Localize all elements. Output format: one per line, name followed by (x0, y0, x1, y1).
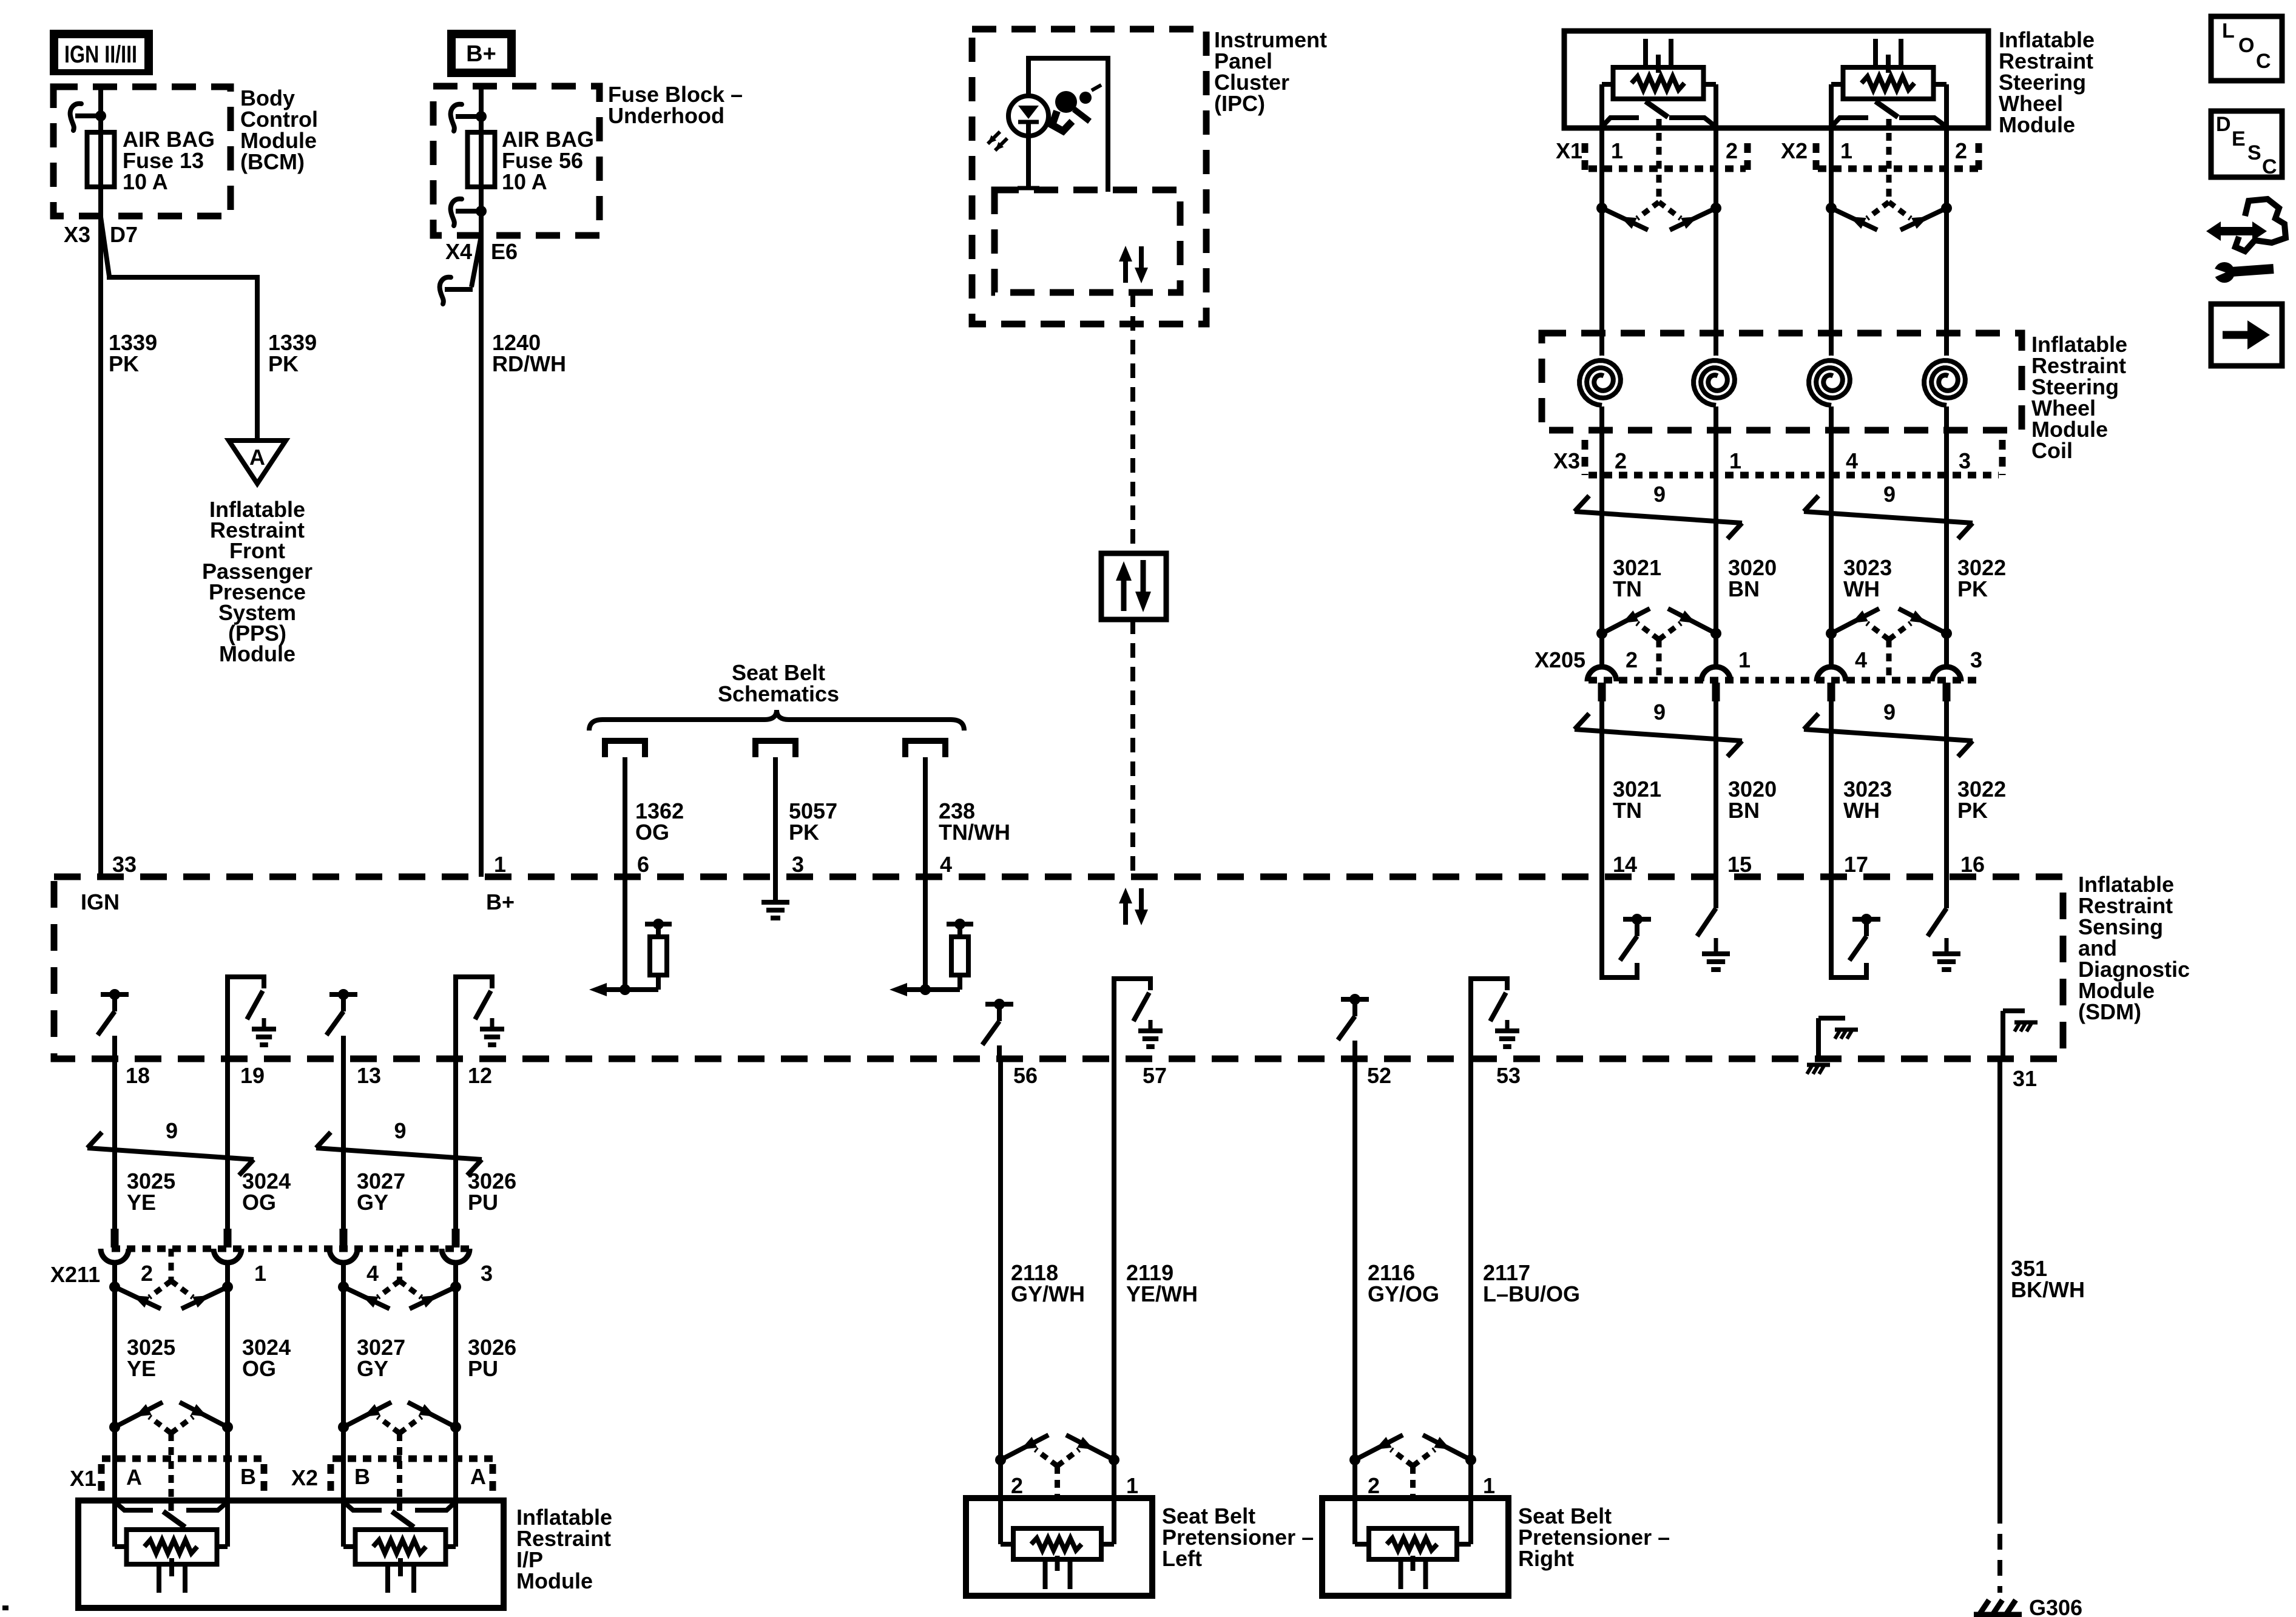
svg-text:Underhood: Underhood (608, 103, 724, 128)
svg-text:X205: X205 (1535, 647, 1585, 672)
svg-text:PK: PK (109, 351, 139, 376)
svg-text:Module: Module (219, 641, 295, 666)
svg-text:52: 52 (1367, 1063, 1391, 1088)
svg-text:PK: PK (268, 351, 299, 376)
svg-text:Module: Module (1999, 112, 2075, 137)
svg-text:53: 53 (1496, 1063, 1521, 1088)
svg-text:4: 4 (1855, 647, 1867, 672)
svg-text:10 A: 10 A (123, 169, 168, 194)
svg-text:15: 15 (1727, 852, 1752, 877)
svg-text:(IPC): (IPC) (1214, 91, 1265, 116)
svg-text:C: C (2262, 155, 2277, 178)
svg-text:Coil: Coil (2031, 438, 2073, 463)
svg-text:WH: WH (1843, 576, 1880, 601)
svg-text:16: 16 (1960, 852, 1985, 877)
svg-text:BK/WH: BK/WH (2011, 1277, 2085, 1302)
svg-text:33: 33 (112, 852, 137, 877)
svg-text:3: 3 (481, 1261, 493, 1286)
svg-text:(SDM): (SDM) (2078, 999, 2141, 1024)
svg-text:PK: PK (1957, 576, 1988, 601)
svg-text:57: 57 (1143, 1063, 1167, 1088)
svg-text:OG: OG (635, 820, 669, 845)
svg-text:4: 4 (366, 1261, 379, 1286)
svg-text:9: 9 (394, 1118, 406, 1143)
svg-text:2: 2 (1726, 138, 1738, 163)
svg-text:Schematics: Schematics (718, 681, 839, 706)
svg-text:B: B (240, 1464, 256, 1489)
svg-text:17: 17 (1844, 852, 1868, 877)
svg-text:S: S (2247, 141, 2261, 164)
svg-text:4: 4 (1846, 448, 1858, 473)
svg-text:Right: Right (1518, 1546, 1574, 1571)
svg-text:PK: PK (1957, 798, 1988, 823)
svg-text:4: 4 (940, 852, 952, 877)
svg-text:X4: X4 (445, 239, 472, 264)
svg-text:6: 6 (637, 852, 649, 877)
svg-text:X2: X2 (1781, 138, 1808, 163)
svg-text:PU: PU (468, 1356, 498, 1381)
svg-text:2: 2 (1626, 647, 1638, 672)
svg-text:E: E (2232, 127, 2246, 150)
svg-text:YE/WH: YE/WH (1126, 1281, 1198, 1306)
svg-text:1: 1 (494, 852, 506, 877)
svg-text:L: L (2222, 19, 2235, 42)
svg-text:12: 12 (468, 1063, 492, 1088)
svg-text:14: 14 (1613, 852, 1637, 877)
svg-text:2: 2 (1615, 448, 1627, 473)
svg-text:GY/OG: GY/OG (1368, 1281, 1439, 1306)
svg-text:3: 3 (1970, 647, 1982, 672)
svg-text:O: O (2238, 34, 2254, 57)
svg-text:1: 1 (1729, 448, 1741, 473)
svg-text:IGN: IGN (81, 890, 120, 914)
svg-text:OG: OG (242, 1356, 276, 1381)
svg-text:2: 2 (1368, 1473, 1380, 1498)
svg-text:B: B (354, 1464, 370, 1489)
svg-text:WH: WH (1843, 798, 1880, 823)
svg-text:GY: GY (357, 1190, 388, 1215)
svg-text:3: 3 (792, 852, 804, 877)
svg-text:D7: D7 (110, 222, 138, 247)
svg-text:B+: B+ (466, 41, 496, 67)
svg-text:56: 56 (1013, 1063, 1038, 1088)
svg-text:2: 2 (141, 1261, 153, 1286)
svg-text:TN: TN (1613, 798, 1642, 823)
svg-text:GY: GY (357, 1356, 388, 1381)
svg-text:1: 1 (254, 1261, 266, 1286)
svg-text:PU: PU (468, 1190, 498, 1215)
svg-text:19: 19 (240, 1063, 265, 1088)
svg-text:YE: YE (127, 1356, 156, 1381)
svg-text:GY/WH: GY/WH (1011, 1281, 1085, 1306)
svg-text:BN: BN (1728, 576, 1760, 601)
svg-text:E6: E6 (491, 239, 518, 264)
svg-text:OG: OG (242, 1190, 276, 1215)
svg-text:A: A (470, 1464, 486, 1489)
svg-text:1: 1 (1483, 1473, 1495, 1498)
svg-text:X211: X211 (50, 1262, 100, 1287)
svg-text:TN/WH: TN/WH (939, 820, 1010, 845)
svg-text:IGN II/III: IGN II/III (64, 41, 137, 68)
svg-text:10 A: 10 A (502, 169, 547, 194)
svg-text:18: 18 (126, 1063, 150, 1088)
svg-text:RD/WH: RD/WH (492, 351, 566, 376)
svg-text:A: A (126, 1465, 142, 1490)
svg-text:31: 31 (2013, 1066, 2037, 1091)
svg-text:PK: PK (789, 820, 819, 845)
svg-text:X3: X3 (1553, 448, 1580, 473)
svg-text:9: 9 (1883, 700, 1896, 724)
svg-text:B+: B+ (486, 890, 515, 914)
svg-text:1: 1 (1738, 647, 1751, 672)
svg-text:D: D (2216, 113, 2231, 136)
svg-text:3: 3 (1959, 448, 1971, 473)
svg-text:1: 1 (1611, 138, 1623, 163)
svg-text:(BCM): (BCM) (240, 149, 305, 174)
svg-text:X1: X1 (1556, 138, 1582, 163)
svg-text:1: 1 (1126, 1473, 1138, 1498)
svg-text:9: 9 (1653, 482, 1666, 507)
svg-text:A: A (249, 445, 265, 470)
svg-text:13: 13 (357, 1063, 381, 1088)
svg-text:2: 2 (1011, 1473, 1023, 1498)
svg-text:BN: BN (1728, 798, 1760, 823)
svg-text:9: 9 (1653, 700, 1666, 724)
svg-text:X3: X3 (64, 222, 90, 247)
svg-text:1: 1 (1840, 138, 1852, 163)
svg-text:Module: Module (516, 1568, 593, 1593)
svg-text:C: C (2256, 50, 2271, 73)
svg-text:YE: YE (127, 1190, 156, 1215)
svg-text:Left: Left (1162, 1546, 1202, 1571)
svg-text:X2: X2 (291, 1465, 318, 1490)
svg-text:G306: G306 (2029, 1595, 2082, 1617)
svg-text:9: 9 (166, 1118, 178, 1143)
svg-text:9: 9 (1883, 482, 1896, 507)
svg-text:L–BU/OG: L–BU/OG (1483, 1281, 1580, 1306)
svg-text:TN: TN (1613, 576, 1642, 601)
svg-text:X1: X1 (70, 1466, 96, 1491)
svg-text:2: 2 (1955, 138, 1967, 163)
